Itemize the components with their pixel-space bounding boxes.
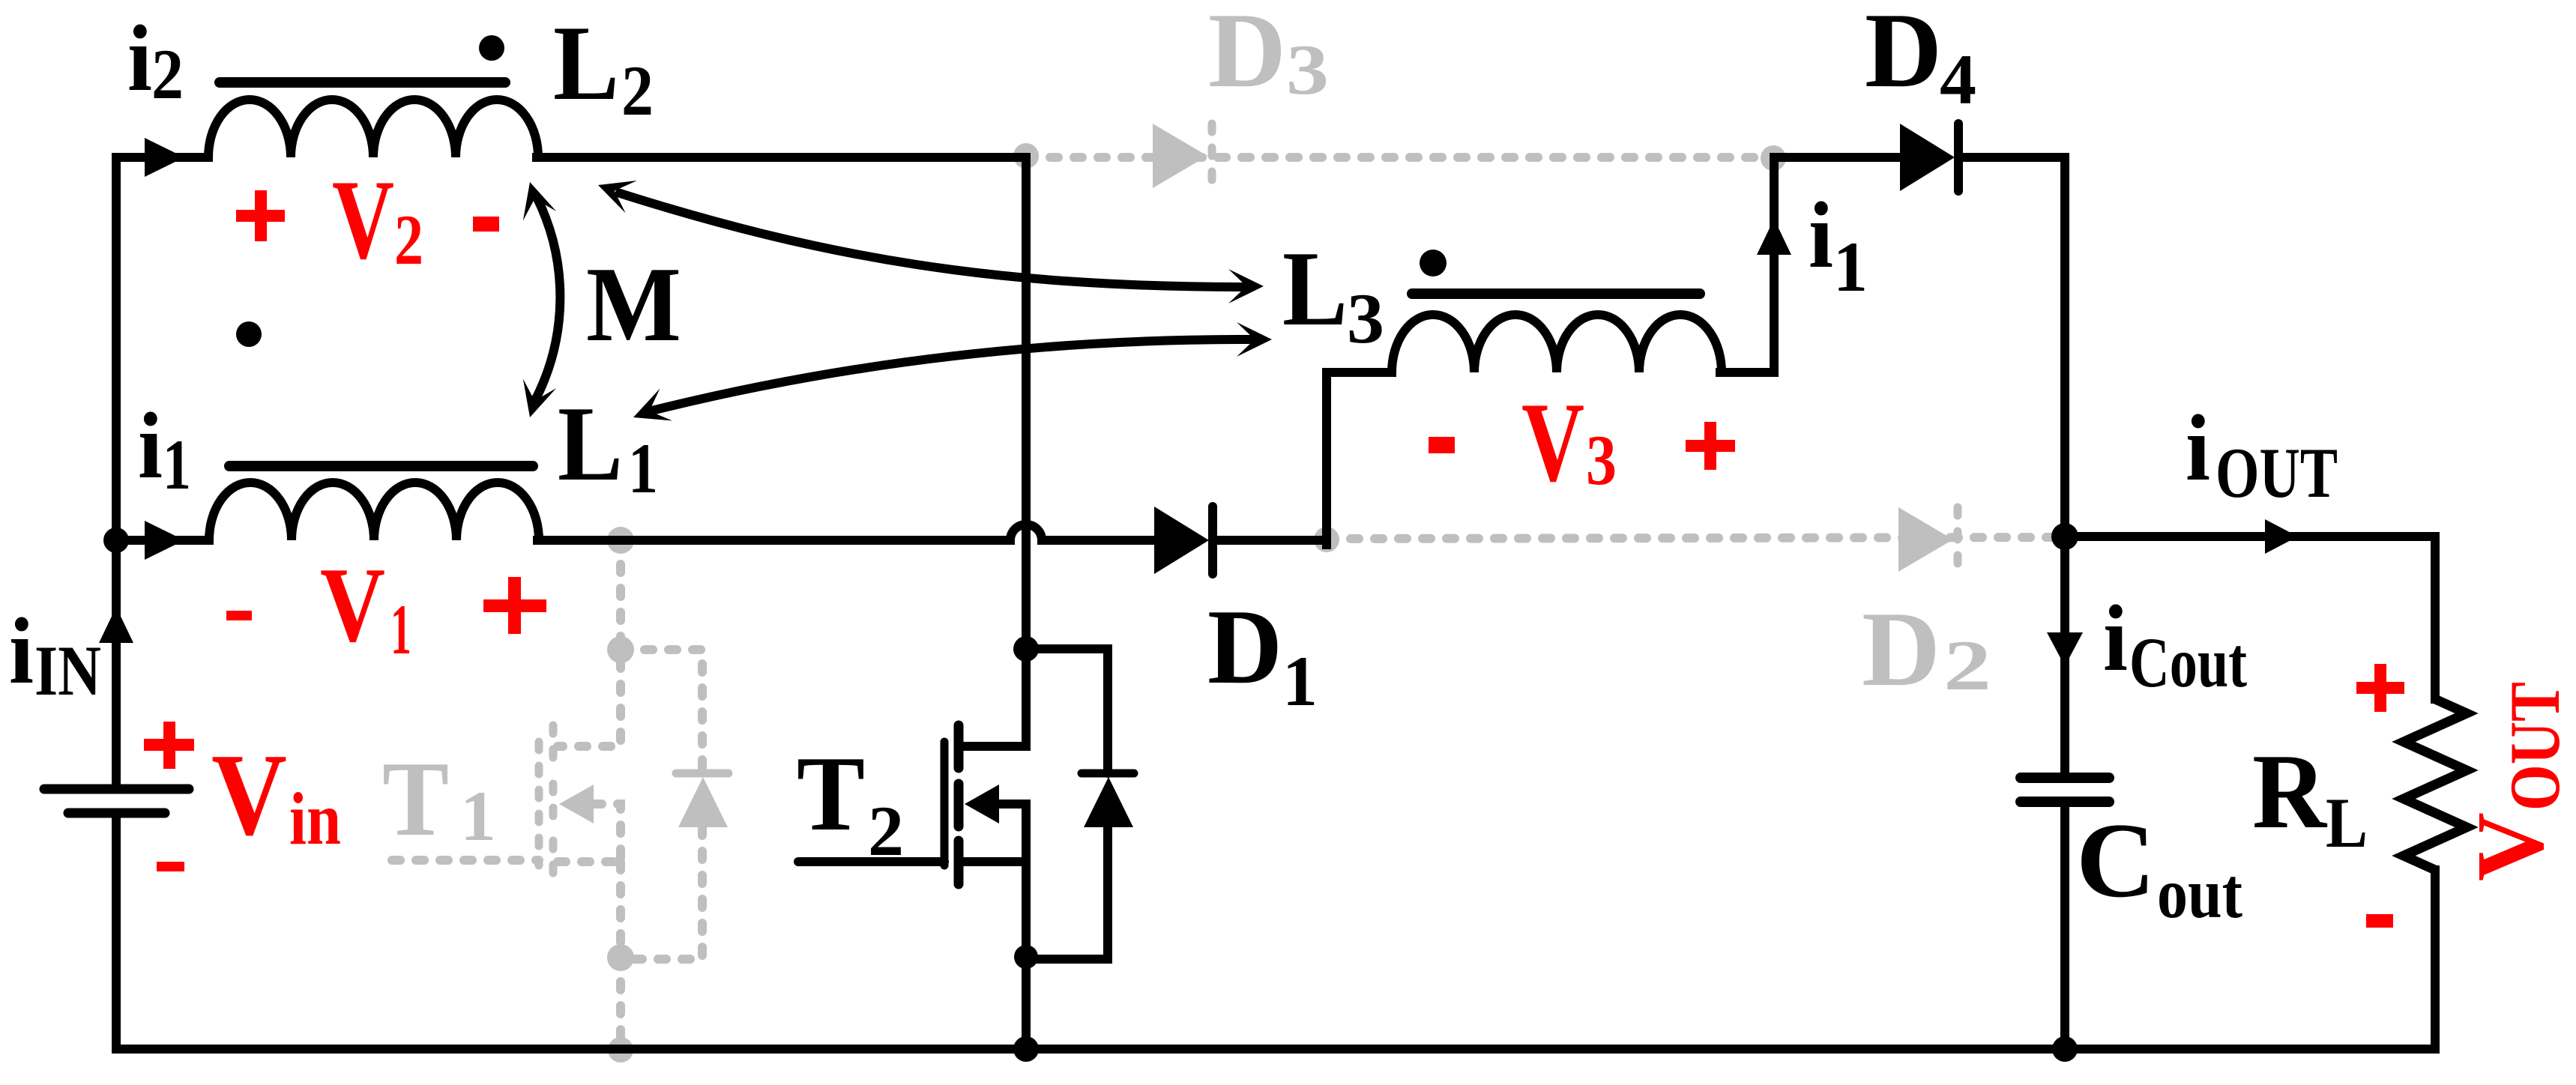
coupling curve L1 to L3: [649, 339, 1255, 411]
svg-text:Cout: Cout: [2129, 623, 2247, 702]
wire: RL top lead: [2431, 537, 2440, 699]
svg-text:L: L: [553, 4, 619, 122]
svg-text:3: 3: [1286, 30, 1329, 109]
L3 polarity dot: [1420, 250, 1447, 276]
svg-text:T: T: [382, 740, 449, 858]
diode D3 triangle grey: [1153, 124, 1207, 188]
node: D3 right junction grey: [1761, 145, 1786, 171]
T1 body arrow grey: [559, 785, 594, 823]
node: T2 source: [1014, 945, 1038, 969]
svg-text:D: D: [1865, 0, 1942, 109]
wire: L3 right leg up to D4 rail: [1720, 157, 1774, 372]
svg-text:IN: IN: [34, 631, 101, 710]
svg-text:2: 2: [868, 791, 904, 871]
V3 minus sign: [1429, 437, 1455, 453]
battery Vin long plate: [44, 785, 189, 794]
svg-text:T: T: [797, 734, 865, 853]
L3 core bar: [1412, 288, 1700, 299]
wire: left rail bottom (battery to ground): [112, 817, 121, 1049]
svg-text:out: out: [2157, 853, 2242, 933]
V1 plus sign: [483, 599, 546, 612]
diode D4 triangle: [1900, 124, 1955, 191]
V2 minus sign: [473, 217, 499, 232]
diode D2 triangle grey: [1898, 507, 1953, 572]
L1 polarity dot: [236, 321, 262, 347]
RL plus sign: [2356, 682, 2404, 694]
wire: right vertical down to output node: [2060, 157, 2069, 537]
wire: L3 left leg: [1327, 372, 1392, 545]
svg-text:V: V: [211, 729, 287, 859]
T1 source stub dashed: [558, 857, 621, 866]
wire: D3 dashed branch: [1026, 153, 1773, 162]
wire: Cout bottom plate to ground: [2060, 807, 2069, 1049]
T2 body diode branch: [1026, 649, 1108, 959]
wire: D4 cathode to output corner: [1962, 153, 2065, 162]
V3 plus sign: [1686, 440, 1735, 452]
T1 channel bar top: [549, 725, 558, 768]
node: Cout on ground rail: [2052, 1036, 2078, 1062]
wire: iOUT output to RL: [2065, 532, 2435, 541]
wire: L2 to T2 top corner: [537, 153, 1026, 162]
wire: into L2: [116, 153, 208, 162]
T2 gate bar: [941, 742, 949, 865]
svg-text:2: 2: [151, 34, 184, 114]
diode D3 cathode bar grey: [1208, 124, 1216, 188]
svg-text:2: 2: [1943, 626, 1991, 705]
svg-text:i: i: [138, 394, 163, 498]
T1 body diode triangle grey: [678, 777, 728, 827]
arrow: iIN up: [99, 607, 133, 643]
T2 channel bar bottom: [954, 841, 964, 884]
L2 core bar: [220, 77, 505, 88]
svg-text:D: D: [1208, 0, 1286, 109]
node: T1 drain on L1 wire (grey): [607, 527, 634, 554]
svg-text:i: i: [2103, 587, 2128, 691]
svg-text:i: i: [2186, 396, 2210, 501]
T2 body arrow: [965, 785, 999, 823]
T2 body diode triangle: [1084, 777, 1133, 827]
svg-text:L: L: [1282, 229, 1348, 348]
svg-text:V: V: [332, 157, 394, 282]
T1 body stub dashed: [594, 804, 621, 862]
svg-text:i: i: [1809, 184, 1833, 288]
diode D4 cathode bar: [1954, 124, 1963, 191]
T1 body diode branch dashed: [621, 650, 702, 959]
T1 gate lead dashed: [392, 856, 539, 865]
svg-text:OUT: OUT: [2215, 433, 2338, 513]
wire: L1 to hop: [537, 536, 1010, 545]
svg-text:R: R: [2252, 732, 2328, 850]
label VOUT red rotated: [2457, 682, 2575, 881]
svg-text:D: D: [1862, 590, 1940, 708]
T1 source lead dashed: [616, 862, 625, 1049]
node: L1 / battery junction: [103, 528, 129, 553]
svg-text:1: 1: [1282, 641, 1318, 721]
node: T1 on ground rail (grey): [608, 1037, 633, 1063]
svg-text:1: 1: [390, 590, 411, 669]
svg-text:1: 1: [460, 776, 496, 856]
svg-text:i: i: [127, 7, 152, 111]
arrow: i2 into L2: [145, 138, 184, 177]
arrow: i1 into L1: [145, 521, 184, 560]
T1 gate bar: [535, 742, 543, 865]
svg-text:3: 3: [1347, 279, 1384, 358]
wire: left rail top (L2 level to battery): [112, 157, 121, 785]
svg-text:V: V: [1521, 379, 1584, 505]
capacitor Cout bottom plate: [2021, 797, 2109, 807]
T2 drain stub: [963, 644, 1026, 746]
T1 channel bar bottom: [549, 841, 558, 884]
arrow: iOUT right: [2265, 519, 2298, 554]
T1 channel bar middle: [549, 784, 558, 826]
wire: vertical from L2 corner down to T2 drain: [1022, 157, 1031, 644]
wire: RL bottom lead: [2431, 870, 2440, 1049]
T2 source stub: [963, 857, 1026, 866]
inductor L1 winding: [209, 483, 539, 540]
T2 channel bar middle: [954, 784, 964, 826]
V2 plus sign: [236, 210, 285, 222]
node: T2 drain: [1013, 636, 1039, 662]
svg-text:L: L: [2326, 783, 2368, 862]
svg-text:OUT: OUT: [2495, 682, 2575, 811]
svg-text:4: 4: [1940, 40, 1976, 119]
svg-text:1: 1: [163, 425, 191, 504]
T1 drain dashed lead: [558, 540, 621, 746]
wire: to D4 anode: [1774, 153, 1900, 162]
svg-text:1: 1: [628, 429, 658, 508]
svg-text:L: L: [558, 384, 623, 503]
V1 minus sign: [226, 611, 252, 620]
coupling curve L2 to L3: [615, 192, 1246, 287]
svg-text:V: V: [2457, 812, 2563, 881]
wire: into L1: [116, 536, 209, 545]
L2 polarity dot: [479, 35, 504, 61]
L1 core bar: [229, 461, 533, 471]
svg-text:2: 2: [621, 51, 654, 130]
svg-text:D: D: [1207, 587, 1282, 706]
svg-text:in: in: [289, 777, 341, 860]
T2 channel bar top: [954, 725, 964, 768]
Vin plus sign: [144, 739, 194, 751]
node: output: [2051, 523, 2078, 550]
T1 body diode bar grey: [676, 770, 729, 778]
wire: D1 cathode to L3 corner: [1216, 536, 1327, 545]
battery Vin short plate: [68, 809, 165, 818]
resistor RL zigzag: [2404, 699, 2467, 870]
svg-text:3: 3: [1586, 420, 1617, 500]
inductor L3 winding: [1392, 315, 1722, 372]
wire: hop over vertical: [1010, 525, 1042, 540]
arrow: iCout down: [2047, 632, 2083, 666]
node: D3 left junction grey: [1013, 143, 1039, 169]
node: T1 source (grey): [607, 944, 634, 971]
coupling arc M between L1 and L2: [534, 197, 560, 402]
T2 source lead down: [1022, 862, 1031, 1049]
T2 body diode bar: [1082, 770, 1134, 778]
Vin minus sign: [157, 862, 184, 871]
RL minus sign: [2366, 914, 2393, 928]
svg-text:M: M: [586, 245, 681, 363]
wire: hop to D1 anode: [1042, 536, 1154, 545]
inductor L2 winding: [208, 100, 538, 157]
capacitor Cout top plate: [2021, 773, 2109, 783]
T2 body stub with arrow: [999, 804, 1026, 862]
diode D1 cathode bar: [1208, 507, 1217, 574]
arrow: i1 up to D4: [1757, 219, 1791, 255]
svg-text:i: i: [9, 599, 34, 704]
svg-text:2: 2: [394, 200, 423, 279]
wire: output node to Cout top plate: [2060, 537, 2069, 773]
node: D2 left junction grey: [1314, 527, 1339, 552]
T2 gate lead: [798, 857, 944, 866]
svg-text:C: C: [2076, 801, 2156, 919]
node: T2 on ground rail: [1013, 1036, 1039, 1062]
svg-text:V: V: [320, 545, 385, 664]
diode D2 cathode bar grey: [1954, 507, 1962, 572]
wire: D2 dashed branch: [1327, 537, 2065, 539]
diode D1 triangle: [1154, 507, 1209, 574]
node: T1 drain (grey): [607, 636, 634, 663]
wire: bottom ground rail: [116, 1045, 2435, 1054]
svg-text:1: 1: [1833, 227, 1868, 306]
